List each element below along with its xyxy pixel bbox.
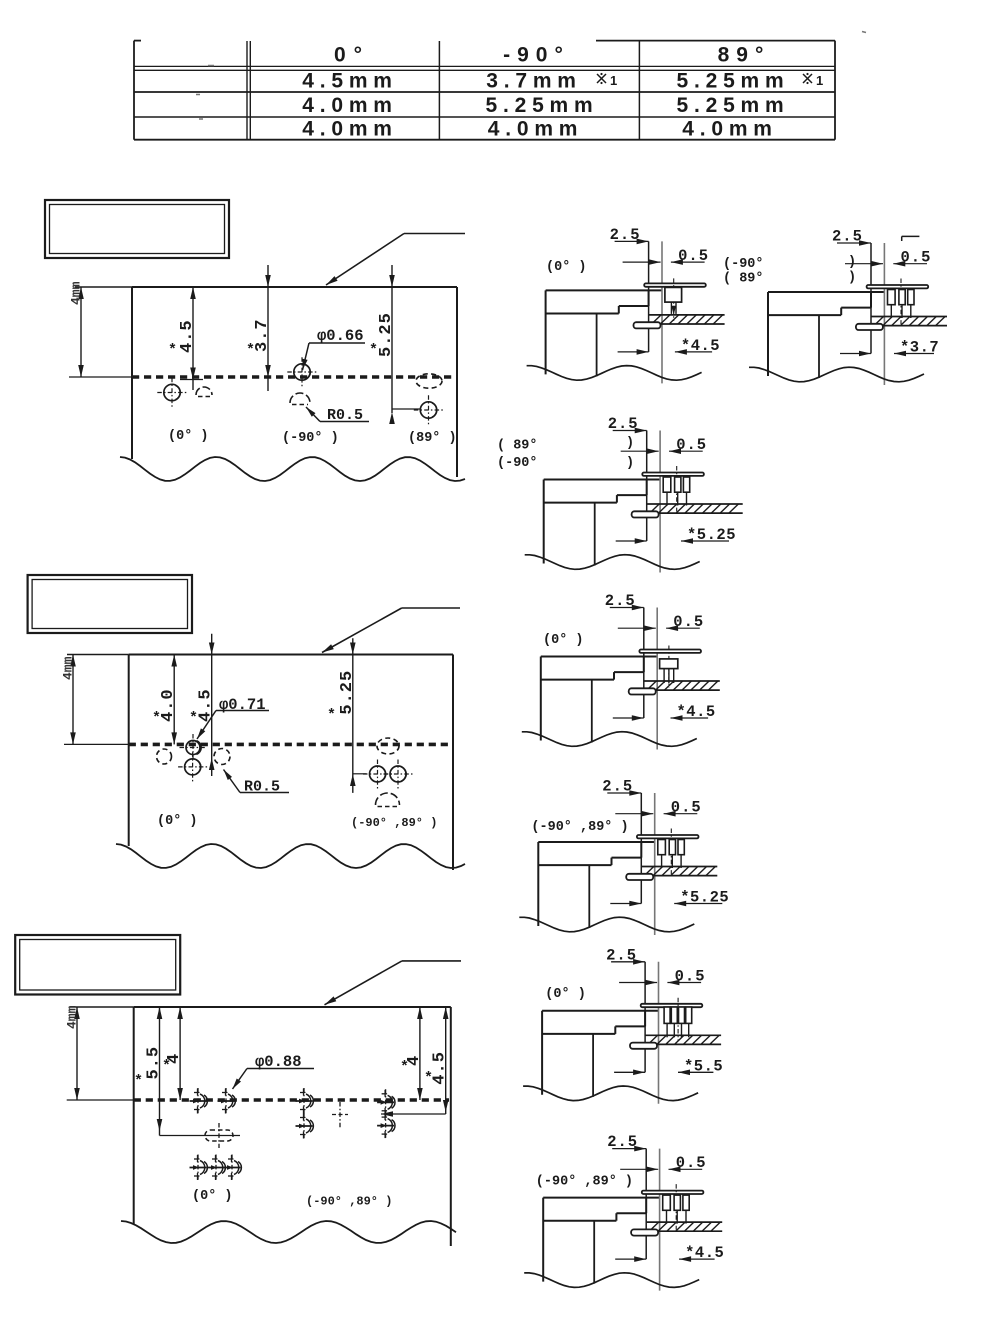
svg-text:(0° ): (0° )	[545, 987, 586, 1002]
svg-text:4mm: 4mm	[61, 656, 76, 680]
svg-text:1: 1	[816, 73, 823, 88]
svg-text:4.0mm: 4.0mm	[302, 94, 398, 117]
svg-text:3.7mm: 3.7mm	[486, 70, 582, 93]
svg-text:*: *	[424, 1070, 433, 1087]
svg-text:-90°: -90°	[503, 44, 570, 67]
svg-text:5.25mm: 5.25mm	[676, 94, 789, 117]
svg-text:89°: 89°	[718, 44, 771, 67]
svg-text:4.0mm: 4.0mm	[302, 118, 398, 141]
svg-text:5.25mm: 5.25mm	[485, 94, 598, 117]
svg-text:2.5: 2.5	[607, 1133, 638, 1151]
svg-text:3.7: 3.7	[253, 318, 272, 352]
svg-text:(0° ): (0° )	[168, 429, 209, 444]
svg-text:*5.25: *5.25	[680, 889, 729, 907]
svg-text:5.25: 5.25	[338, 670, 357, 715]
svg-text:(89° ): (89° )	[408, 431, 457, 446]
svg-text:): )	[848, 271, 856, 286]
svg-text:( 89°: ( 89°	[723, 272, 764, 287]
svg-text:4.0mm: 4.0mm	[488, 118, 584, 141]
svg-text:1: 1	[610, 73, 617, 88]
svg-text:4.0: 4.0	[159, 688, 178, 722]
svg-text:0.5: 0.5	[673, 613, 704, 631]
svg-text:5.25: 5.25	[377, 312, 396, 357]
svg-text:): )	[848, 255, 856, 270]
svg-text:5.5: 5.5	[145, 1046, 164, 1080]
svg-text:*: *	[134, 1073, 143, 1090]
svg-text:(0° ): (0° )	[192, 1189, 233, 1204]
svg-text:*4.5: *4.5	[677, 703, 716, 721]
svg-text:2.5: 2.5	[610, 226, 641, 244]
svg-text:0.5: 0.5	[678, 247, 709, 265]
svg-text:4.5: 4.5	[178, 319, 197, 353]
svg-text:2.5: 2.5	[608, 415, 639, 433]
svg-text:*: *	[369, 342, 378, 359]
svg-text:φ0.71: φ0.71	[219, 696, 266, 714]
svg-text:*5.25: *5.25	[687, 526, 736, 544]
svg-text:0°: 0°	[334, 44, 370, 67]
svg-text:2.5: 2.5	[832, 228, 863, 246]
svg-text:*3.7: *3.7	[900, 339, 939, 357]
svg-text:(0° ): (0° )	[543, 633, 584, 648]
svg-text:( 89°: ( 89°	[497, 439, 538, 454]
svg-text:*5.5: *5.5	[684, 1057, 723, 1075]
svg-text:4.5mm: 4.5mm	[302, 70, 398, 93]
svg-text:(-90° ): (-90° )	[282, 431, 339, 446]
svg-text:(-90° ,89° ): (-90° ,89° )	[351, 816, 437, 830]
svg-text:2.5: 2.5	[602, 778, 633, 796]
svg-text:*4.5: *4.5	[681, 337, 720, 355]
svg-text:*: *	[162, 1058, 171, 1075]
svg-text:(0° ): (0° )	[546, 260, 587, 275]
svg-text:4.0mm: 4.0mm	[682, 118, 778, 141]
svg-text:(-90° ,89° ): (-90° ,89° )	[536, 1175, 633, 1190]
svg-text:(0° ): (0° )	[157, 814, 198, 829]
svg-text:(-90°: (-90°	[497, 456, 538, 471]
svg-text:5.25mm: 5.25mm	[676, 70, 789, 93]
svg-text:4.5: 4.5	[431, 1051, 450, 1085]
svg-text:*: *	[246, 342, 255, 359]
svg-text:(-90° ,89° ): (-90° ,89° )	[531, 820, 628, 835]
svg-text:4mm: 4mm	[69, 281, 84, 305]
svg-text:(-90° ,89° ): (-90° ,89° )	[306, 1195, 392, 1209]
svg-text:*: *	[327, 707, 336, 724]
svg-text:(-90°: (-90°	[723, 257, 764, 272]
svg-text:0.5: 0.5	[676, 436, 707, 454]
svg-text:2.5: 2.5	[606, 946, 637, 964]
svg-text:0.5: 0.5	[901, 249, 932, 267]
svg-text:*: *	[152, 710, 161, 727]
svg-text:4.5: 4.5	[197, 688, 216, 722]
svg-text:0.5: 0.5	[671, 799, 702, 817]
svg-text:): )	[626, 456, 634, 471]
svg-text:*4.5: *4.5	[685, 1244, 724, 1262]
svg-text:4mm: 4mm	[65, 1005, 80, 1029]
svg-text:0.5: 0.5	[676, 1154, 707, 1172]
svg-text:): )	[626, 436, 634, 451]
svg-text:2.5: 2.5	[605, 592, 636, 610]
svg-text:*: *	[168, 342, 177, 359]
svg-text:*: *	[400, 1059, 409, 1076]
svg-text:0.5: 0.5	[675, 967, 706, 985]
svg-text:*: *	[189, 710, 198, 727]
